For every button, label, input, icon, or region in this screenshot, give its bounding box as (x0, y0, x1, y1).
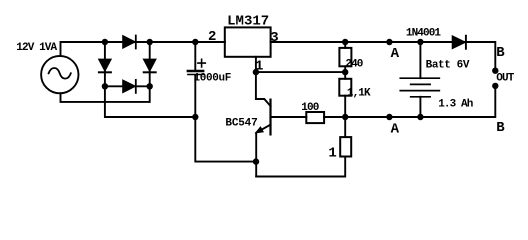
wire: top rail bridge segment (105, 41, 225, 43)
svg-text:3: 3 (270, 30, 278, 46)
junction: bridge top-left (102, 39, 108, 45)
transistor Q1 emitter arrowhead (256, 127, 264, 133)
svg-text:B: B (496, 45, 505, 61)
wire: AC bottom (61, 86, 150, 102)
AC source V1 (41, 56, 78, 93)
battery BT1 plates (400, 77, 439, 79)
junction: battery bottom on rail (417, 114, 423, 120)
terminal OUT upper (492, 68, 498, 74)
svg-text:2: 2 (208, 29, 216, 45)
resistor R2 1,1K box (339, 79, 351, 96)
svg-text:OUT: OUT (496, 73, 514, 85)
battery BT1 wire top (419, 42, 421, 78)
wire: pin 1 down (256, 57, 271, 106)
svg-text:1: 1 (328, 146, 336, 162)
resistor R3 100 box (306, 112, 324, 123)
capacitor C1 wire bottom (195, 75, 256, 162)
junction: emitter/ground node (253, 158, 259, 164)
junction: R1/R2 node (342, 69, 348, 75)
svg-text:A: A (391, 46, 400, 62)
junction: R1 column top on rail (342, 39, 348, 45)
svg-text:A: A (391, 121, 400, 137)
terminal OUT lower (492, 83, 498, 89)
diode D1 (bridge top) (123, 36, 135, 48)
wire between R1 and R2 (344, 66, 346, 79)
battery BT1 wire bottom (419, 97, 421, 117)
junction: capacitor bottom node (192, 114, 198, 120)
junction: bridge top-right (147, 39, 153, 45)
svg-text:1,1K: 1,1K (347, 88, 371, 100)
node A (bottom rail) (386, 114, 392, 120)
svg-text:240: 240 (345, 59, 362, 71)
junction: bridge bottom-left (102, 83, 108, 89)
svg-text:B: B (496, 120, 505, 136)
middle column: wire top (344, 42, 346, 48)
wire: LM317 output rail to right corner (271, 42, 496, 71)
junction: LM317 pin 1 node (253, 69, 259, 75)
svg-text:Batt 6V: Batt 6V (426, 59, 470, 71)
junction: bridge bottom-right (147, 83, 153, 89)
wire bottom rail to R4 (344, 117, 346, 137)
sine wave inside V1 (49, 68, 71, 79)
wire: base row / bottom rail left part (271, 116, 307, 118)
capacitor C1 plus sign (198, 59, 205, 67)
junction: battery top on rail (417, 39, 423, 45)
diode D3 (bridge right, pointing down) (144, 59, 156, 71)
wire: pin1 row to middle column (256, 71, 345, 73)
capacitor C1 wire top (194, 42, 196, 70)
wire: R4 bottom to ground run (256, 157, 345, 177)
svg-text:12V 1VA: 12V 1VA (16, 42, 57, 54)
node A (top rail) (386, 39, 392, 45)
resistor R1 240 box (339, 48, 351, 66)
svg-text:1N4001: 1N4001 (406, 28, 442, 40)
bridge left vertical wire (105, 42, 195, 117)
capacitor C1 plates (188, 70, 203, 73)
diode D5 1N4001 (452, 36, 465, 49)
transistor Q1 emitter wire down (255, 133, 257, 177)
svg-text:1.3 Ah: 1.3 Ah (438, 99, 473, 111)
LM317 U1 box (225, 27, 271, 56)
wire: bottom rail right of R3 (324, 86, 495, 117)
svg-text:BC547: BC547 (225, 118, 257, 130)
wire: AC top to top rail (61, 42, 105, 56)
wire R2 to bottom rail (344, 96, 346, 117)
bridge right vertical wire (149, 42, 151, 86)
svg-text:100: 100 (301, 102, 318, 114)
diode D2 (bridge left, pointing down) (99, 59, 111, 71)
svg-text:LM317: LM317 (227, 14, 269, 30)
svg-text:1000uF: 1000uF (194, 73, 231, 85)
resistor R4 1 ohm box (340, 137, 351, 156)
diode D4 (bridge bottom) (123, 80, 135, 92)
transistor Q1 emitter diagonal (260, 125, 271, 131)
transistor Q1 BC547 bar (269, 100, 271, 135)
junction: R2/R4/base row node (342, 114, 348, 120)
bridge bottom row wire (105, 85, 150, 87)
junction: capacitor top on rail (192, 39, 198, 45)
